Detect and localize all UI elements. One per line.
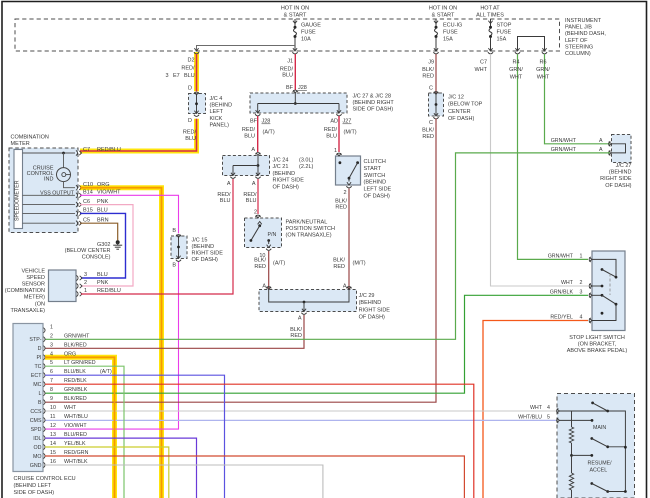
wire highlight - ORG traced circuit from combination meter C10 down off-page xyxy=(80,188,162,498)
svg-text:BLK/: BLK/ xyxy=(422,67,434,73)
svg-text:OF DASH): OF DASH) xyxy=(359,315,385,321)
svg-text:D: D xyxy=(38,346,42,352)
svg-text:(COMBINATION: (COMBINATION xyxy=(5,288,45,294)
svg-text:BF: BF xyxy=(286,85,294,91)
svg-text:KICK: KICK xyxy=(210,116,223,122)
svg-text:BLK/: BLK/ xyxy=(335,198,347,204)
svg-text:J28: J28 xyxy=(262,119,271,125)
svg-text:ALL TIMES: ALL TIMES xyxy=(476,13,504,19)
stop light switch pin 1 xyxy=(589,257,591,262)
svg-text:AD: AD xyxy=(330,119,338,125)
svg-text:2: 2 xyxy=(254,210,257,216)
instrument panel junction block J/B (dashed fuse box) xyxy=(15,19,560,51)
svg-text:RED/YEL: RED/YEL xyxy=(550,315,573,321)
stop light switch mechanical link (dashed) xyxy=(609,274,611,296)
svg-text:VEHICLE: VEHICLE xyxy=(21,269,45,275)
svg-text:(BELOW TOP: (BELOW TOP xyxy=(448,102,483,108)
svg-text:J9: J9 xyxy=(428,60,434,66)
svg-text:3: 3 xyxy=(166,73,169,79)
svg-text:D2: D2 xyxy=(187,58,194,64)
svg-text:GRN/BLK: GRN/BLK xyxy=(550,290,574,296)
svg-text:RED: RED xyxy=(422,134,434,140)
svg-text:HOT IN ON: HOT IN ON xyxy=(429,6,457,12)
meter pin B15 xyxy=(76,211,78,216)
svg-text:B: B xyxy=(172,228,176,234)
svg-text:MAIN: MAIN xyxy=(593,425,606,431)
svg-text:SENSOR: SENSOR xyxy=(22,282,45,288)
svg-text:2: 2 xyxy=(84,280,87,286)
resistor lower xyxy=(571,455,573,473)
wire C10 ORG (highlighted) from meter down off-page bottom xyxy=(80,188,162,498)
svg-text:BLU: BLU xyxy=(97,272,108,278)
svg-text:WHT/BLU: WHT/BLU xyxy=(64,414,88,420)
stop light switch pin 2 xyxy=(589,283,591,288)
svg-text:GRN/BLK: GRN/BLK xyxy=(64,387,88,393)
svg-text:5: 5 xyxy=(547,414,550,420)
svg-text:METER): METER) xyxy=(24,295,45,301)
svg-text:(BEHIND RIGHT: (BEHIND RIGHT xyxy=(353,100,395,106)
svg-text:ECU-IG: ECU-IG xyxy=(443,23,462,29)
fuse GAUGE 10A xyxy=(293,21,297,24)
svg-text:(3.0L): (3.0L) xyxy=(299,158,314,164)
svg-text:15A: 15A xyxy=(497,37,507,43)
wire J1 RED/BLU from J/B to J/C 27/28 xyxy=(294,54,296,90)
svg-text:RED: RED xyxy=(254,264,266,270)
stop light switch pin 4 internal wire xyxy=(592,304,616,320)
svg-text:A: A xyxy=(298,316,302,322)
svg-text:RED: RED xyxy=(422,73,434,79)
svg-text:GAUGE: GAUGE xyxy=(301,23,321,29)
svg-text:WHT: WHT xyxy=(64,405,77,411)
svg-text:MC: MC xyxy=(33,382,41,388)
svg-text:STOP LIGHT SWITCH: STOP LIGHT SWITCH xyxy=(569,335,625,341)
vehicle speed sensor box xyxy=(49,270,77,302)
svg-text:A: A xyxy=(251,147,255,153)
svg-text:START: START xyxy=(364,166,382,172)
resistor upper xyxy=(569,427,573,443)
svg-text:E7: E7 xyxy=(173,73,180,79)
svg-text:C7: C7 xyxy=(480,60,487,66)
svg-text:L: L xyxy=(39,391,42,397)
svg-text:OF DASH): OF DASH) xyxy=(273,184,299,190)
wire highlight - RED/BLU traced circuit from GAUGE fuse to combination meter xyxy=(194,52,199,91)
ECU pin 1 xyxy=(44,328,46,333)
junction box J/C 27 (behind right side of dash) xyxy=(612,135,632,163)
svg-text:15A: 15A xyxy=(443,37,453,43)
svg-text:4: 4 xyxy=(547,405,550,411)
svg-text:STOP: STOP xyxy=(497,23,512,29)
svg-text:(M/T): (M/T) xyxy=(344,130,357,136)
svg-text:CCS: CCS xyxy=(30,409,42,415)
wire RED/BLU from J/C 24 right branch to park/neutral position switch xyxy=(257,179,259,214)
svg-text:BLU: BLU xyxy=(220,198,231,204)
svg-text:IND: IND xyxy=(44,177,54,183)
meter internal wire B14 xyxy=(23,194,76,196)
svg-text:TRANSAXLE): TRANSAXLE) xyxy=(10,308,45,314)
svg-text:OF DASH): OF DASH) xyxy=(605,183,631,189)
pin 5 internal wire xyxy=(560,419,593,421)
P/N switch contact to pin 10 xyxy=(267,239,270,242)
svg-text:RED/: RED/ xyxy=(280,66,294,72)
svg-text:RED/: RED/ xyxy=(217,192,231,198)
svg-text:A: A xyxy=(599,138,603,144)
P/N switch blade xyxy=(258,224,261,227)
svg-text:D: D xyxy=(188,86,192,92)
svg-text:OF DASH): OF DASH) xyxy=(364,194,390,200)
svg-text:LT GRN/RED: LT GRN/RED xyxy=(64,360,96,366)
svg-text:SIDE OF DASH): SIDE OF DASH) xyxy=(14,490,55,496)
svg-text:15: 15 xyxy=(50,450,56,456)
svg-text:ECT: ECT xyxy=(31,373,42,379)
meter pin B14 xyxy=(76,193,78,198)
internal bus right vertical xyxy=(608,411,626,492)
wire LT GRN/RED from ECU pin 5 down off-page xyxy=(45,366,124,498)
wire GRN/BLK from cruise ECU pin 8 to stop light switch pin 3 xyxy=(45,295,588,393)
svg-text:(ON: (ON xyxy=(35,301,45,307)
J/B exit J9 xyxy=(434,48,438,51)
wire D2 RED/BLU (highlighted) from J/B through J/C 4 to combination meter C7 xyxy=(196,54,198,91)
wire RED/BLK from ECU pin 7 down off-page xyxy=(45,384,474,498)
svg-text:J/C 27 & J/C 28: J/C 27 & J/C 28 xyxy=(353,94,392,100)
wire WHT/BLU from cruise ECU pin 11 to switch pin 5 xyxy=(45,419,556,421)
wire ORG from ECU pin 4 down off-page (highlighted) xyxy=(45,357,115,498)
svg-text:LEFT OF: LEFT OF xyxy=(565,38,588,44)
svg-text:OF DASH): OF DASH) xyxy=(192,257,218,263)
wire WHT/BLK from ECU pin 16 down off-page xyxy=(45,465,323,498)
svg-text:FUSE: FUSE xyxy=(443,30,458,36)
svg-text:RED/: RED/ xyxy=(242,127,256,133)
svg-text:1: 1 xyxy=(334,148,337,154)
svg-text:P/N: P/N xyxy=(268,232,277,238)
svg-text:PANEL): PANEL) xyxy=(210,122,230,128)
svg-text:10: 10 xyxy=(50,405,56,411)
svg-text:J1: J1 xyxy=(287,59,293,65)
svg-text:R4: R4 xyxy=(512,60,519,66)
svg-text:HOT AT: HOT AT xyxy=(480,6,500,12)
clutch switch fixed contact xyxy=(339,161,342,164)
svg-text:BLK/: BLK/ xyxy=(333,258,345,264)
svg-text:RED/BLU: RED/BLU xyxy=(97,147,121,153)
svg-text:CRUISE CONTROL ECU: CRUISE CONTROL ECU xyxy=(14,476,76,482)
wire BLU/RED from ECU pin 13 down off-page xyxy=(45,438,197,498)
svg-text:B14: B14 xyxy=(83,190,93,196)
speedometer sub-box xyxy=(14,150,23,229)
svg-text:FUSE: FUSE xyxy=(301,30,316,36)
wire GRN/WHT from J/C 27 to cruise ECU pin 2 xyxy=(45,153,610,339)
svg-text:C: C xyxy=(429,86,433,92)
meter pin C10 xyxy=(76,185,78,190)
svg-text:(A/T): (A/T) xyxy=(273,261,285,267)
combination meter assembly (dashed box) xyxy=(9,148,78,233)
svg-text:J/C 15: J/C 15 xyxy=(192,238,208,244)
svg-text:TC: TC xyxy=(34,364,41,370)
clutch switch blade xyxy=(356,161,359,164)
wire highlight - ORG traced circuit from cruise ECU pin 4 down off-page xyxy=(45,357,115,498)
J/B internal branch wire from GAUGE fuse to D2 exit xyxy=(197,46,296,52)
svg-text:8: 8 xyxy=(50,387,53,393)
svg-text:16: 16 xyxy=(50,459,56,465)
svg-text:RED/BLU: RED/BLU xyxy=(97,288,121,294)
wire BLK/RED (M/T) from clutch switch to J/C 29 xyxy=(348,189,350,290)
svg-text:GND: GND xyxy=(30,463,42,469)
fuse STOP 15A xyxy=(488,21,492,24)
svg-text:RIGHT SIDE: RIGHT SIDE xyxy=(359,307,391,313)
svg-text:METER: METER xyxy=(11,141,30,147)
svg-text:(M/T): (M/T) xyxy=(353,261,366,267)
svg-text:J/C 21: J/C 21 xyxy=(273,164,289,170)
stop light switch box xyxy=(592,251,625,331)
svg-text:J28: J28 xyxy=(298,85,307,91)
wire C7 WHT from STOP fuse to stop light switch pin 2 xyxy=(491,54,589,286)
svg-text:BLK/RED: BLK/RED xyxy=(64,396,87,402)
svg-text:C: C xyxy=(429,120,433,126)
J/B exit C7 xyxy=(488,48,492,51)
svg-text:A: A xyxy=(252,181,256,187)
meter pin C7 xyxy=(76,150,78,155)
svg-text:OF DASH): OF DASH) xyxy=(448,116,474,122)
svg-text:GRN/: GRN/ xyxy=(536,67,550,73)
junction box J/C 4 (behind left kick panel) xyxy=(189,94,206,114)
junction box J/C 24 / J/C 21 (behind right side of dash) xyxy=(223,156,270,176)
resume switch blade xyxy=(590,437,593,440)
svg-text:RED: RED xyxy=(290,333,302,339)
svg-text:(BEHIND: (BEHIND xyxy=(609,170,632,176)
svg-text:CLUTCH: CLUTCH xyxy=(364,159,386,165)
svg-text:IDL: IDL xyxy=(33,436,41,442)
svg-text:4: 4 xyxy=(580,315,583,321)
svg-text:STEERING: STEERING xyxy=(565,44,593,50)
svg-text:12: 12 xyxy=(50,423,56,429)
svg-text:J27: J27 xyxy=(343,119,352,125)
svg-text:FUSE: FUSE xyxy=(497,30,512,36)
wire YEL/BLK from ECU pin 14 down off-page xyxy=(45,447,169,498)
park/neutral position switch (dashed box, on transaxle) xyxy=(245,218,282,248)
svg-text:SPEED: SPEED xyxy=(26,275,45,281)
svg-text:WHT/BLK: WHT/BLK xyxy=(64,459,88,465)
svg-text:WHT: WHT xyxy=(530,405,543,411)
stop light switch blade 1 xyxy=(601,268,604,271)
junction box J/C 27 and J/C 28 (behind right side of dash) xyxy=(250,93,347,113)
meter internal wire to C7 with junction node xyxy=(23,152,76,154)
svg-text:WHT: WHT xyxy=(510,74,523,80)
svg-text:C7: C7 xyxy=(83,147,90,153)
svg-text:ACCEL: ACCEL xyxy=(590,467,608,473)
svg-text:WHT/BLU: WHT/BLU xyxy=(518,414,542,420)
svg-text:PI: PI xyxy=(36,355,41,361)
stop light switch blade 2 xyxy=(601,294,604,297)
svg-text:INSTRUMENT: INSTRUMENT xyxy=(565,18,602,24)
resume/accel internal wiring pin4 node xyxy=(560,411,608,427)
svg-text:BF: BF xyxy=(250,119,258,125)
svg-text:LEFT SIDE: LEFT SIDE xyxy=(364,187,392,193)
wire C6 PNK from meter to VSS pin 2 xyxy=(80,205,133,286)
wire WHT from cruise ECU pin 10 to switch pin 4 xyxy=(45,410,556,412)
svg-text:LEFT: LEFT xyxy=(210,109,224,115)
svg-text:J/C 24: J/C 24 xyxy=(273,158,289,164)
svg-text:BLU: BLU xyxy=(184,73,195,79)
J/B exit R4 xyxy=(515,48,519,51)
svg-text:RED/: RED/ xyxy=(324,127,338,133)
svg-text:OD: OD xyxy=(34,445,42,451)
svg-text:BLU/BLK: BLU/BLK xyxy=(64,369,86,375)
svg-text:WHT: WHT xyxy=(537,74,550,80)
meter internal wire C5 xyxy=(23,222,76,224)
svg-text:G302: G302 xyxy=(97,242,110,248)
meter internal wire C6 xyxy=(23,204,76,206)
svg-text:& START: & START xyxy=(432,13,455,19)
svg-text:POSITION SWITCH: POSITION SWITCH xyxy=(286,226,336,232)
wire VSS pin1 RED/BLU to J/C 24 xyxy=(81,179,233,294)
svg-text:14: 14 xyxy=(50,441,56,447)
svg-text:MO: MO xyxy=(33,454,42,460)
svg-text:WHT: WHT xyxy=(474,67,487,73)
svg-text:YEL/BLK: YEL/BLK xyxy=(64,441,86,447)
svg-text:SPEEDOMETER: SPEEDOMETER xyxy=(15,180,21,221)
svg-text:6: 6 xyxy=(50,369,53,375)
svg-text:WHT: WHT xyxy=(561,280,574,286)
meter internal wire B15 xyxy=(23,212,76,214)
wire BLU/BLK from ECU pin 6 down off-page xyxy=(45,375,225,498)
svg-text:RED/: RED/ xyxy=(181,66,195,72)
svg-text:STP-: STP- xyxy=(29,337,41,343)
svg-text:(BEHIND: (BEHIND xyxy=(273,171,296,177)
svg-text:1: 1 xyxy=(50,324,53,330)
svg-text:RED: RED xyxy=(335,205,347,211)
svg-text:2: 2 xyxy=(50,333,53,339)
svg-text:7: 7 xyxy=(50,378,53,384)
J/B exit J1 xyxy=(293,48,297,51)
svg-text:COLUMN): COLUMN) xyxy=(565,51,591,57)
svg-text:BLK/: BLK/ xyxy=(422,128,434,134)
junction box J/C 12 (below top center of dash) xyxy=(429,93,444,116)
fuse ECU-IG 15A xyxy=(434,21,438,24)
svg-text:RIGHT SIDE: RIGHT SIDE xyxy=(600,176,632,182)
svg-text:R6: R6 xyxy=(539,60,546,66)
switch pin 5 entry xyxy=(557,418,559,423)
svg-text:COMBINATION: COMBINATION xyxy=(11,135,49,141)
svg-text:J/C 27: J/C 27 xyxy=(616,163,632,169)
svg-text:(ON BRACKET,: (ON BRACKET, xyxy=(578,341,617,347)
cruise control indicator lamp xyxy=(63,153,65,168)
svg-text:A: A xyxy=(227,181,231,187)
svg-text:(BEHIND DASH,: (BEHIND DASH, xyxy=(565,31,606,37)
svg-text:BLU/RED: BLU/RED xyxy=(64,432,87,438)
svg-text:B: B xyxy=(172,263,176,269)
stop light switch unused contact xyxy=(601,312,604,315)
wire J9 BLK/RED from J/B to J/C 12 xyxy=(435,54,437,93)
cruise control resume/accel switch (dashed box) xyxy=(557,394,635,498)
svg-text:13: 13 xyxy=(50,432,56,438)
svg-text:CMS: CMS xyxy=(30,418,42,424)
svg-text:(ON TRANSAXLE): (ON TRANSAXLE) xyxy=(286,233,332,239)
svg-text:D: D xyxy=(188,118,192,124)
svg-text:PANEL J/B: PANEL J/B xyxy=(565,25,592,31)
svg-text:B: B xyxy=(38,400,42,406)
svg-text:J/C 12: J/C 12 xyxy=(448,95,464,101)
svg-text:BLU: BLU xyxy=(282,73,293,79)
wire BLK/RED (A/T) from P/N switch to J/C 29 xyxy=(268,251,270,289)
meter pin C5 xyxy=(76,221,78,226)
junction to divider xyxy=(570,454,573,457)
svg-text:BLK/RED: BLK/RED xyxy=(64,342,87,348)
svg-text:(BEHIND: (BEHIND xyxy=(359,300,382,306)
wire RED/YEL from stop light switch pin 4 down off-page xyxy=(483,321,588,498)
wire B15 BLU from meter to VSS pin 3 xyxy=(80,213,126,278)
svg-text:CENTER: CENTER xyxy=(448,109,471,115)
wire BF RED/BLU (A/T) down to J/C 24 xyxy=(257,116,259,152)
svg-text:GRN/WHT: GRN/WHT xyxy=(64,333,90,339)
wire B14 VIO/WHT from meter through J/C 15 to ECU pin 12 xyxy=(80,195,179,233)
svg-text:RIGHT SIDE: RIGHT SIDE xyxy=(192,251,224,257)
svg-text:BLU: BLU xyxy=(185,136,196,142)
svg-text:3: 3 xyxy=(580,290,583,296)
wire R6 GRN/WHT from J/B to J/C 27 upper pin A xyxy=(545,54,611,144)
svg-text:RED/BLK: RED/BLK xyxy=(64,378,87,384)
svg-text:SIDE OF DASH): SIDE OF DASH) xyxy=(353,107,394,113)
accel switch blade xyxy=(590,482,593,485)
svg-text:VIO/WHT: VIO/WHT xyxy=(64,423,87,429)
svg-text:11: 11 xyxy=(50,414,56,420)
svg-text:(BELOW CENTER: (BELOW CENTER xyxy=(65,248,111,254)
svg-text:CONSOLE): CONSOLE) xyxy=(82,255,111,261)
svg-text:BLU: BLU xyxy=(244,133,255,139)
svg-text:10A: 10A xyxy=(301,37,311,43)
svg-text:RED/: RED/ xyxy=(183,130,197,136)
junction box J/C 29 (behind right side of dash) xyxy=(259,290,357,312)
svg-text:1: 1 xyxy=(580,254,583,260)
svg-text:RED/: RED/ xyxy=(243,192,257,198)
svg-text:A: A xyxy=(343,284,347,290)
stop light switch pin 1 internal wire xyxy=(592,259,616,277)
J/B exit R6 xyxy=(542,48,546,51)
svg-text:9: 9 xyxy=(50,396,53,402)
svg-text:BLK/: BLK/ xyxy=(290,327,302,333)
svg-text:(BEHIND: (BEHIND xyxy=(364,180,387,186)
wire R4 GRN/WHT from J/B to stop light switch pin 1 xyxy=(518,54,589,259)
svg-text:BLK/: BLK/ xyxy=(254,258,266,264)
svg-text:2: 2 xyxy=(580,280,583,286)
wire BLK/RED from J/C 12 to cruise ECU pin 9 xyxy=(45,119,436,403)
wire RED/GRN from ECU pin 15 down off-page xyxy=(45,456,464,498)
J/B internal link bar joining R4 and R6 outputs xyxy=(518,37,545,52)
junction box J/C 15 (behind right side of dash) xyxy=(171,236,187,259)
svg-text:(BEHIND: (BEHIND xyxy=(210,103,233,109)
svg-text:3: 3 xyxy=(50,342,53,348)
svg-text:A: A xyxy=(262,284,266,290)
VSS pin 2 xyxy=(77,283,79,288)
svg-text:3: 3 xyxy=(84,272,87,278)
main switch blade xyxy=(591,402,594,405)
svg-text:HOT IN ON: HOT IN ON xyxy=(281,6,309,12)
svg-text:J/C 29: J/C 29 xyxy=(359,293,375,299)
svg-text:2: 2 xyxy=(343,190,346,196)
wire C5 BRN from meter to ground G302 xyxy=(80,223,118,240)
svg-text:(BEHIND: (BEHIND xyxy=(192,244,215,250)
svg-text:RESUME/: RESUME/ xyxy=(588,461,613,467)
svg-text:(A/T): (A/T) xyxy=(263,130,275,136)
svg-text:SPD: SPD xyxy=(31,427,42,433)
switch pin 4 entry xyxy=(557,408,559,413)
svg-text:VIO/WHT: VIO/WHT xyxy=(97,190,121,196)
VSS pin 1 xyxy=(77,291,79,296)
svg-text:GRN/WHT: GRN/WHT xyxy=(548,254,574,260)
svg-text:BLU: BLU xyxy=(246,198,257,204)
svg-text:RED/GRN: RED/GRN xyxy=(64,450,89,456)
wire BLK/RED from J/C 29 to cruise ECU pin 3 xyxy=(45,315,304,348)
ground G302 (below center console) xyxy=(116,240,120,244)
VSS pin 3 xyxy=(77,275,79,280)
svg-text:(2.2L): (2.2L) xyxy=(299,164,314,170)
